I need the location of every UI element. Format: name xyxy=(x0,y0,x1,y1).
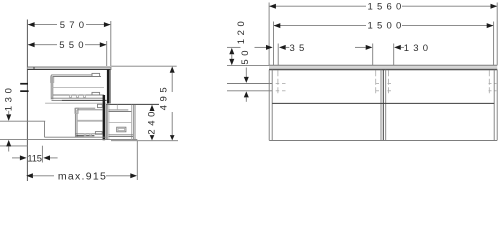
pulled drawer box block xyxy=(117,127,126,132)
dim 550 left arrow xyxy=(28,42,35,47)
dim 50 upper dashes xyxy=(276,83,280,85)
dim max.915 right extension line xyxy=(136,141,138,180)
siphon recess vertical xyxy=(44,121,46,137)
svg-text:130: 130 xyxy=(404,43,432,54)
dim 115 right arrow with tail xyxy=(43,155,50,160)
svg-text:max.915: max.915 xyxy=(58,171,107,182)
lower drawer rail end block xyxy=(95,132,102,135)
lower drawer top rail xyxy=(75,107,95,109)
cabinet front face lower (grey) xyxy=(106,103,108,140)
dim max.915 right arrow xyxy=(106,175,131,177)
upper drawer rail ticks xyxy=(70,95,72,97)
dim 495 top arrow xyxy=(170,66,175,72)
mid left extension line xyxy=(372,44,374,66)
pulled drawer box tick xyxy=(116,105,118,110)
svg-text:1560: 1560 xyxy=(368,2,406,13)
svg-text:115: 115 xyxy=(27,153,41,164)
dim 120 up arrow xyxy=(229,48,234,54)
lower drawer mid line xyxy=(77,119,102,121)
svg-text:50: 50 xyxy=(240,47,251,65)
dim 50 shaft upper xyxy=(245,68,247,78)
dim 550 line xyxy=(28,44,57,46)
pulled drawer box mid line xyxy=(108,122,131,124)
console slab (left view) xyxy=(27,67,111,70)
lower drawer front bracket (top) xyxy=(98,104,103,107)
dim 50 lower line xyxy=(227,90,272,92)
top extension line for 495 xyxy=(111,65,177,67)
lower drawer bottom xyxy=(75,133,102,135)
pulled drawer box inner top rail xyxy=(108,109,128,111)
dim max.915 left arrow xyxy=(26,173,33,178)
cabinet right edge double xyxy=(493,70,495,141)
upper drawer front bracket (top) xyxy=(92,73,100,76)
dim 130 left extension line (right view) xyxy=(393,44,395,66)
wall line xyxy=(26,20,28,182)
dim 570 right extension line xyxy=(110,21,112,66)
upper drawer lower line xyxy=(51,97,104,99)
svg-text:550: 550 xyxy=(59,40,87,51)
dim 550 right extension line xyxy=(106,41,108,66)
dim 570 left arrow xyxy=(28,22,35,27)
upper drawer top rail xyxy=(51,74,92,76)
siphon recess shelf line xyxy=(45,136,106,138)
dim 570 right arrow xyxy=(104,22,111,27)
dim 1560 right arrow xyxy=(491,4,498,9)
hidden drawer side stubs (dashed) xyxy=(277,70,279,95)
dim 570 line xyxy=(28,24,57,26)
lower drawer front panel xyxy=(103,95,106,140)
console slab (front view) xyxy=(269,65,497,70)
mid arrow tail xyxy=(355,46,366,48)
svg-text:120: 120 xyxy=(236,18,247,45)
cabinet middle joint xyxy=(380,70,382,141)
siphon recess top line / 130 extension xyxy=(0,120,45,122)
upper drawer front panel xyxy=(107,70,110,104)
dim 35 right extension line xyxy=(277,44,279,66)
dim 1500 right arrow xyxy=(487,23,494,28)
cabinet left edge double xyxy=(268,70,270,141)
dim 1560 extension lines xyxy=(268,3,270,66)
dim 50 up arrow xyxy=(244,91,249,97)
svg-text:35: 35 xyxy=(290,43,309,54)
dim 240 bottom arrow xyxy=(150,135,155,140)
division line (left view light) xyxy=(45,102,106,104)
dim 35 tail+arrow xyxy=(255,46,267,48)
console top extension left xyxy=(227,65,269,67)
dim 1500 extension lines xyxy=(273,22,275,66)
pulled drawer box right: left edge xyxy=(105,104,107,139)
dim 50 lower dashes xyxy=(276,90,280,92)
dim 1500 line xyxy=(274,25,366,27)
upper drawer back panel xyxy=(50,75,52,99)
pulled drawer box bottom lines xyxy=(108,134,133,136)
bottom extension line for 240/495 xyxy=(111,140,178,142)
upper drawer bottom xyxy=(53,94,104,96)
dim 1560 left arrow xyxy=(269,4,276,9)
dim 50 down arrow xyxy=(244,77,249,83)
cabinet front inner grey line xyxy=(109,70,111,104)
lower drawer back top lip xyxy=(75,108,78,113)
dim 1500 left arrow xyxy=(274,23,281,28)
dim 550 right arrow xyxy=(100,42,107,47)
cabinet bottom line xyxy=(269,140,497,142)
svg-text:130: 130 xyxy=(3,85,14,112)
dim 1560 line xyxy=(269,5,366,7)
svg-text:1500: 1500 xyxy=(368,21,406,32)
cabinet bottom line xyxy=(0,138,137,140)
dim 495 bottom arrow xyxy=(170,135,175,140)
floor/reference line lower left xyxy=(0,145,28,147)
dim 115 left arrow with tail xyxy=(12,157,20,159)
dim 130 up arrow (below bottom line) xyxy=(6,140,11,147)
dim 50 upper line xyxy=(227,83,272,85)
upper drawer rail end block xyxy=(92,92,100,95)
dim 50 shaft lower xyxy=(245,97,247,101)
dim 130 down arrow xyxy=(6,114,11,121)
dim 120 down arrow xyxy=(229,59,234,65)
svg-text:495: 495 xyxy=(159,84,170,111)
dim 50 hidden line dashes (mid joint) xyxy=(376,83,380,85)
dim 120 shaft xyxy=(231,54,233,60)
svg-text:240: 240 xyxy=(147,108,158,135)
console front edge xyxy=(110,67,112,70)
dim 35 right arrow xyxy=(279,45,286,50)
drawer division line xyxy=(272,102,494,104)
wall bracket tick upper xyxy=(20,83,28,85)
lower drawer rail ticks xyxy=(84,134,86,136)
upper drawer back top lip xyxy=(51,77,54,83)
dim 50 hidden line dashes (right edge) xyxy=(489,83,492,85)
console joint tick xyxy=(33,67,35,70)
lower drawer back panel xyxy=(74,108,76,137)
wall bracket tick lower xyxy=(20,90,28,92)
dim 130 arrow (right view) xyxy=(394,45,401,50)
dim 240 top arrow xyxy=(150,105,155,111)
division extension line to 240 xyxy=(106,103,159,105)
dim 120 top line xyxy=(227,46,241,48)
pulled drawer box right edge double xyxy=(131,105,133,140)
mid arrow xyxy=(366,45,373,50)
upper drawer mid line xyxy=(53,87,104,89)
svg-text:570: 570 xyxy=(60,20,88,31)
dim 115 right extension line xyxy=(41,146,43,163)
